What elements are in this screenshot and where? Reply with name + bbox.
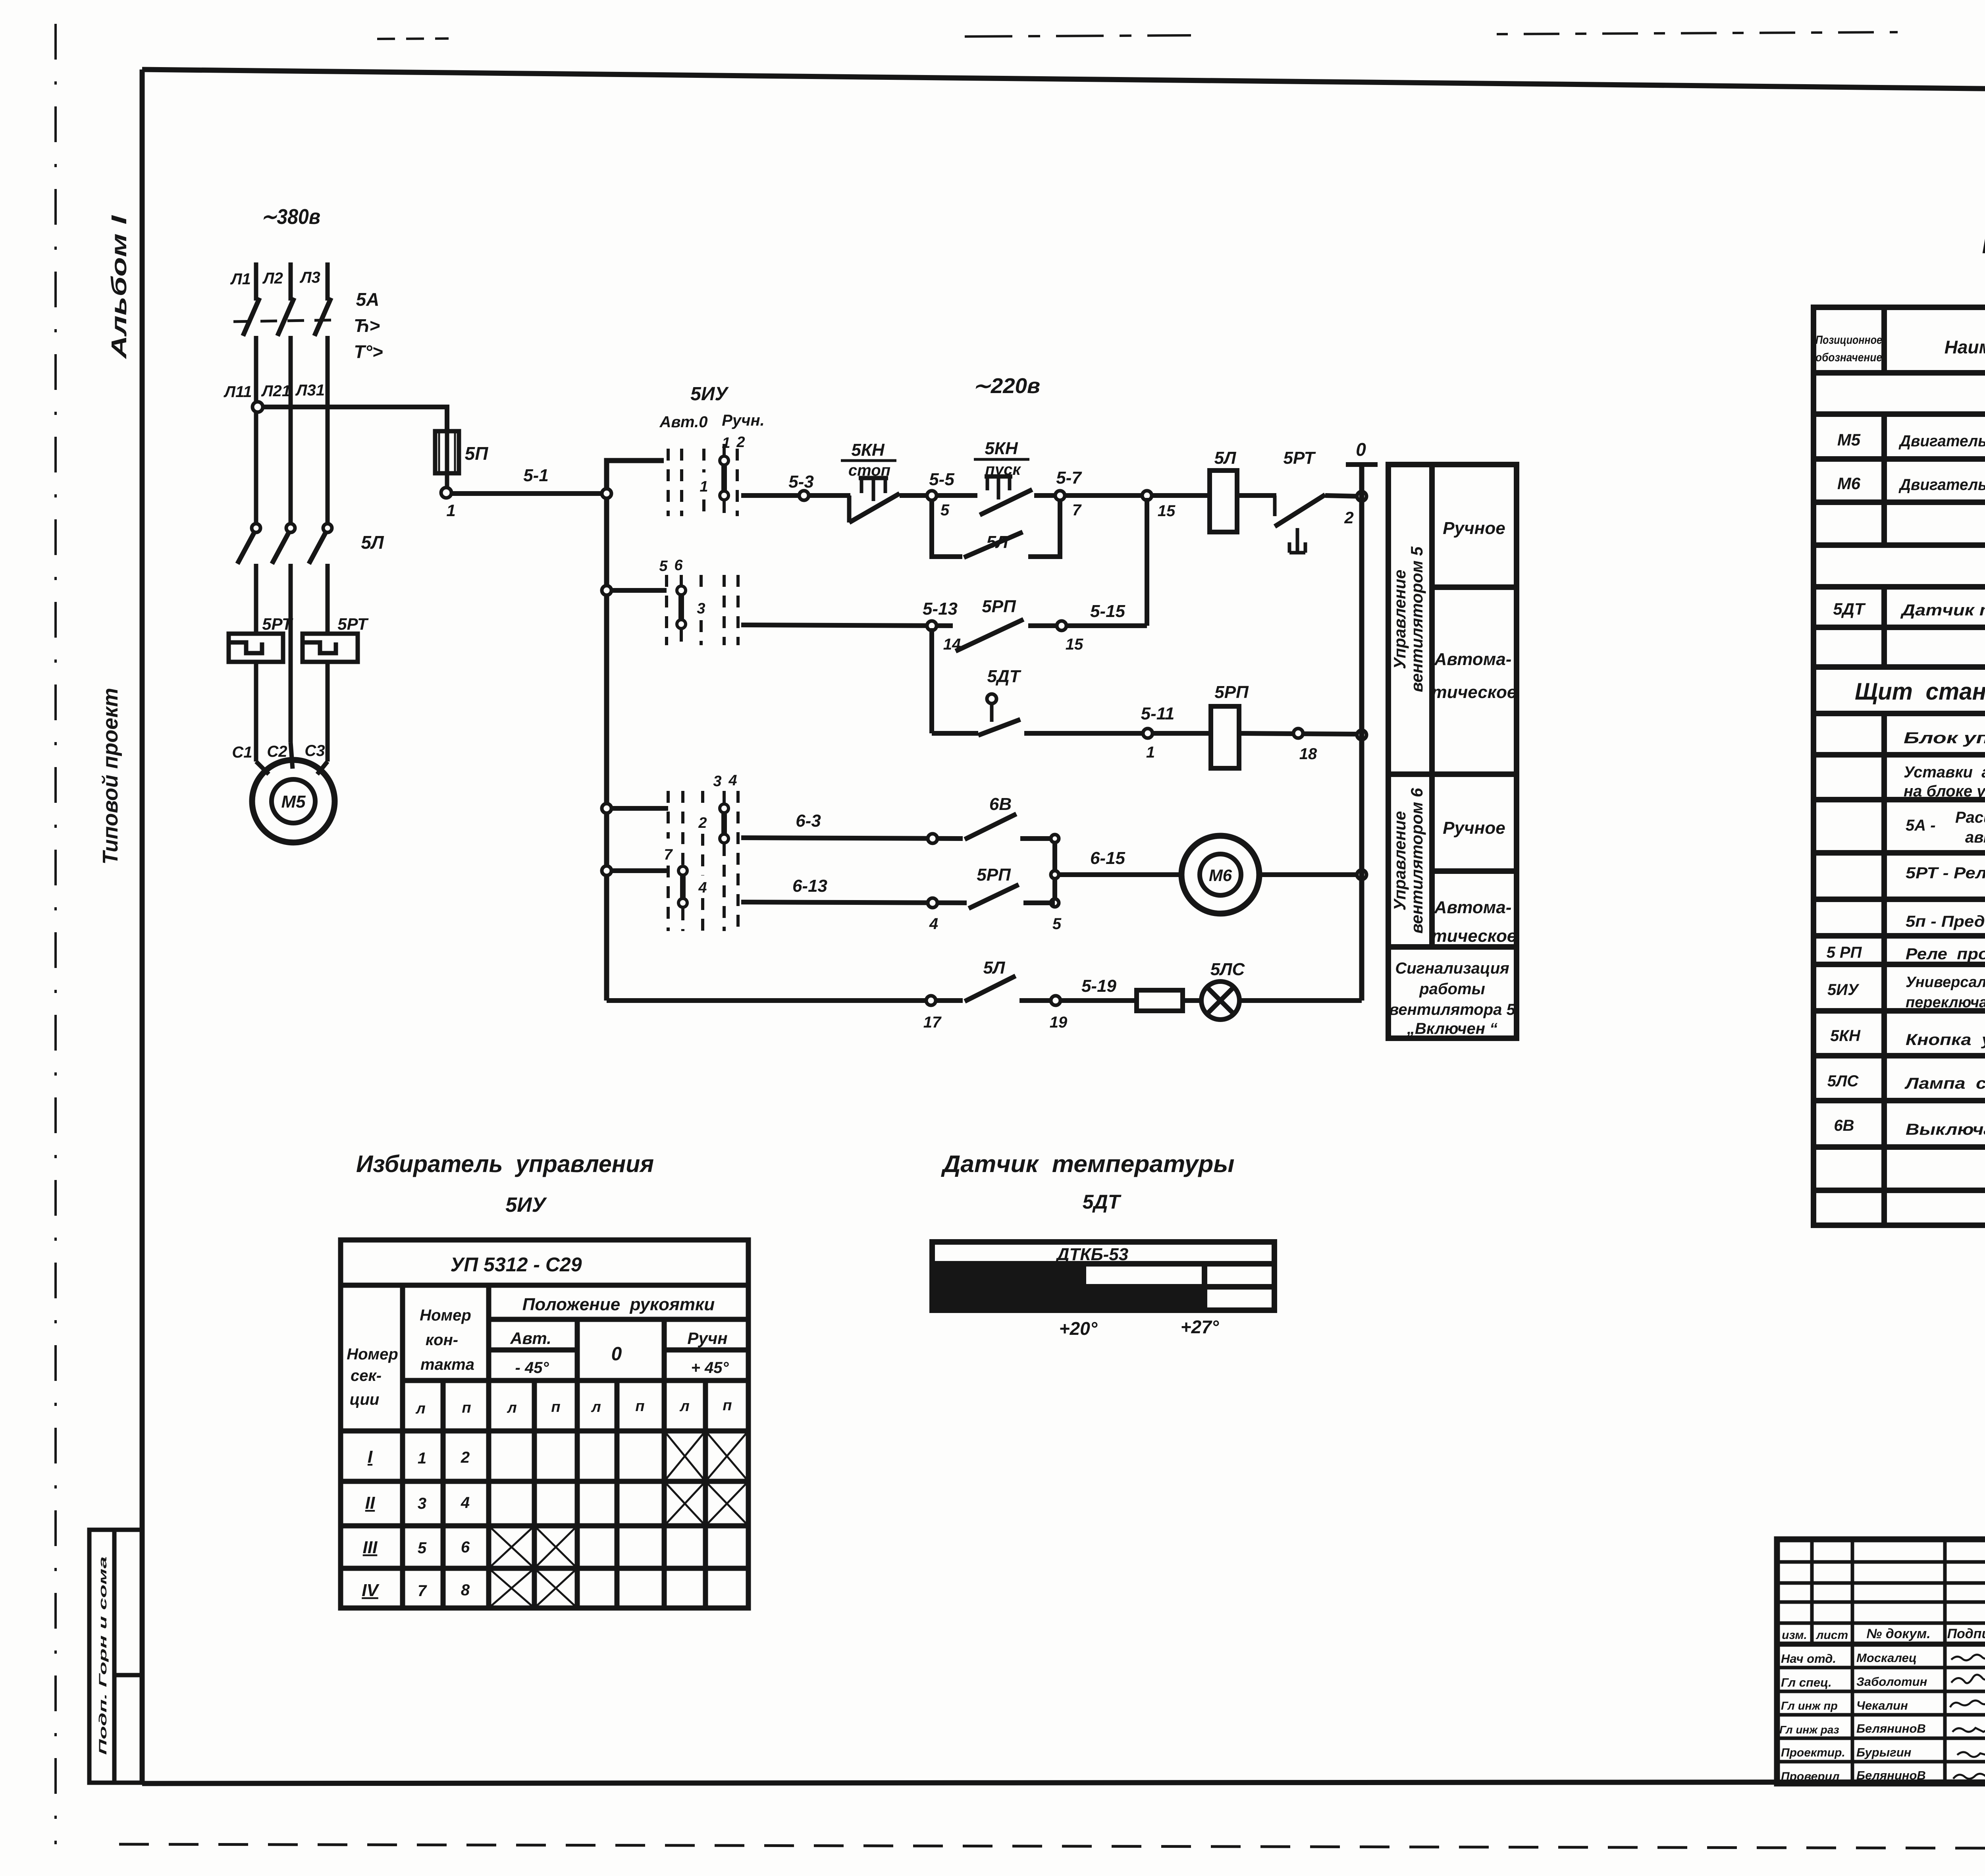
svg-text:Сигнализация: Сигнализация: [1395, 960, 1509, 977]
auxiliary contact 5L (seal-in branch): [932, 500, 1060, 557]
svg-text:5Л: 5Л: [361, 532, 384, 553]
svg-text:6-3: 6-3: [796, 811, 821, 831]
svg-text:обозначение: обозначение: [1815, 351, 1882, 364]
svg-text:Двигатель вентилятора В-1: Двигатель вентилятора В-1: [1898, 432, 1985, 450]
svg-text:Т°>: Т°>: [354, 341, 383, 362]
selector 5IU sections III-IV contacts (rungs 6-3, 6-13): [664, 772, 738, 931]
svg-text:5-3: 5-3: [788, 472, 814, 492]
svg-text:Расцепитель: Расцепитель: [1955, 809, 1985, 826]
thermal relay 5RT NC contact: [1275, 495, 1325, 553]
svg-text:5РТ: 5РТ: [337, 615, 369, 633]
element list table: [1813, 307, 1985, 1225]
node on wire 5-3: [799, 491, 809, 500]
svg-text:5ИУ: 5ИУ: [505, 1193, 547, 1217]
svg-text:Л1: Л1: [230, 270, 251, 288]
phase line L3: [326, 262, 330, 301]
vertical wire node14 down to 5DT rung: [929, 628, 934, 733]
wire lamp to bus corner: [1239, 998, 1362, 1003]
svg-text:Номер: Номер: [347, 1346, 398, 1363]
selector table grid: [341, 1240, 748, 1608]
wire L11 segment: [254, 336, 258, 523]
svg-text:Автома-: Автома-: [1434, 650, 1512, 669]
svg-text:тическое: тическое: [1432, 926, 1517, 946]
svg-text:Л31: Л31: [295, 382, 325, 399]
wire 6-15: [1059, 872, 1181, 877]
svg-text:Ручн.: Ручн.: [722, 412, 765, 429]
svg-text:вентилятором 5: вентилятором 5: [1407, 546, 1426, 692]
svg-text:Датчик температуры: Датчик температуры: [1900, 602, 1985, 619]
sensor black band upper (to +20): [935, 1266, 1086, 1285]
svg-text:сек-: сек-: [351, 1367, 382, 1384]
svg-text:3: 3: [697, 600, 705, 617]
svg-text:Ћ>: Ћ>: [354, 315, 380, 336]
svg-text:6В: 6В: [1834, 1117, 1854, 1134]
pushbutton 5KN pusk (NO): [980, 476, 1032, 515]
sensor black band lower (to +27): [935, 1289, 1204, 1308]
svg-text:Избиратель управления: Избиратель управления: [356, 1151, 654, 1177]
wire to thermostat 5DT: [932, 731, 978, 736]
svg-text:5Л: 5Л: [987, 532, 1008, 552]
svg-text:7: 7: [664, 846, 673, 863]
node 5-5: [927, 491, 937, 500]
svg-text:ДТКБ-53: ДТКБ-53: [1055, 1245, 1128, 1264]
svg-text:7: 7: [1072, 501, 1082, 519]
svg-text:7: 7: [418, 1582, 427, 1600]
wire C1: [254, 662, 258, 762]
svg-text:19: 19: [1050, 1014, 1068, 1031]
wire 6-3: [741, 838, 963, 839]
motor leads: [256, 742, 328, 774]
wire L31 segment: [326, 336, 330, 523]
svg-text:6: 6: [674, 557, 683, 574]
svg-text:5РП: 5РП: [977, 865, 1011, 885]
circuit breaker 5A pole 1: [243, 298, 260, 336]
svg-text:3: 3: [418, 1495, 426, 1512]
node 15 (5-15): [1057, 621, 1066, 630]
svg-text:„Включен “: „Включен “: [1407, 1020, 1497, 1037]
node 15 junction: [1142, 491, 1152, 500]
phase line L2: [289, 262, 293, 301]
svg-text:на блоке управления: на блоке управления: [1904, 783, 1985, 800]
svg-text:Гл спец.: Гл спец.: [1781, 1675, 1832, 1689]
bus stub rung 6-3: [611, 806, 668, 811]
svg-text:Подпись: Подпись: [1947, 1626, 1985, 1641]
inventory stamp box: [89, 1530, 142, 1783]
svg-text:5п - Предохранитель: 5п - Предохранитель: [1906, 913, 1985, 930]
switch 6V (NO): [965, 814, 1016, 839]
svg-text:п: п: [723, 1397, 732, 1414]
signatures (squiggles): [1950, 1654, 1985, 1779]
bottom rung wire from bus: [607, 998, 963, 1003]
svg-text:5РП: 5РП: [1214, 683, 1249, 702]
wire 5-1: [451, 491, 605, 496]
svg-text:Перечень элементов: Перечень элементов: [1982, 226, 1985, 260]
svg-text:переключатель: переключатель: [1906, 994, 1985, 1011]
circuit breaker 5A pole 2: [278, 298, 294, 336]
svg-text:Чекалин: Чекалин: [1856, 1699, 1908, 1712]
svg-text:Лампа сигнальная: Лампа сигнальная: [1904, 1075, 1985, 1092]
svg-text:Уставки аппаратов: Уставки аппаратов: [1904, 764, 1985, 781]
svg-text:∼380в: ∼380в: [261, 205, 320, 229]
svg-text:УП 5312 - С29: УП 5312 - С29: [450, 1253, 582, 1276]
svg-text:Л11: Л11: [223, 383, 252, 401]
svg-text:5-11: 5-11: [1141, 704, 1175, 723]
svg-text:л: л: [507, 1400, 517, 1416]
svg-text:л: л: [415, 1400, 426, 1417]
svg-text:5-7: 5-7: [1056, 468, 1082, 488]
svg-text:5КН: 5КН: [1830, 1027, 1861, 1045]
svg-text:М6: М6: [1209, 866, 1232, 885]
svg-text:лист: лист: [1815, 1629, 1848, 1642]
svg-text:5ИУ: 5ИУ: [690, 384, 729, 405]
wire 5-13: [741, 625, 953, 626]
svg-text:5ЛС: 5ЛС: [1210, 960, 1245, 979]
wire 5-19: [1060, 998, 1137, 1003]
svg-text:2: 2: [736, 434, 745, 451]
svg-text:Кнопка управления: Кнопка управления: [1906, 1031, 1985, 1049]
svg-text:М5: М5: [1837, 430, 1861, 449]
svg-text:1: 1: [446, 501, 455, 520]
node 4: [928, 898, 937, 908]
svg-text:вентилятора 5: вентилятора 5: [1389, 1001, 1515, 1018]
wire to node 5-5: [900, 493, 977, 498]
svg-text:Авт.: Авт.: [510, 1329, 551, 1348]
circuit breaker 5A pole 3: [314, 298, 331, 336]
svg-text:5Л: 5Л: [1214, 448, 1236, 468]
node 5-11: [1143, 729, 1152, 738]
svg-text:М6: М6: [1837, 474, 1861, 493]
svg-text:Наименование: Наименование: [1945, 337, 1985, 357]
svg-text:5А: 5А: [356, 289, 380, 310]
thermostat contact 5DT: [978, 694, 1020, 735]
svg-text:пуск: пуск: [985, 461, 1021, 478]
svg-text:5ЛС: 5ЛС: [1827, 1072, 1859, 1090]
svg-text:Гл инж пр: Гл инж пр: [1781, 1700, 1838, 1712]
svg-text:5КН: 5КН: [985, 439, 1018, 458]
junction on bus 0 (M6): [1357, 870, 1366, 879]
svg-text:Л2: Л2: [262, 270, 283, 287]
svg-text:5-1: 5-1: [523, 466, 549, 485]
svg-text:6-13: 6-13: [792, 876, 827, 896]
svg-text:5РП: 5РП: [982, 597, 1016, 616]
auxiliary contact 5L (signal): [965, 976, 1016, 1001]
thermal relay 5RT heater 2: [303, 634, 358, 662]
svg-text:БеляниноВ: БеляниноВ: [1856, 1768, 1926, 1782]
crosses: section I closed in Ruchn: [664, 1431, 705, 1481]
svg-text:4: 4: [698, 879, 707, 896]
bus junction node rung 6-3: [602, 804, 611, 813]
bus stub rung2: [611, 588, 667, 593]
svg-text:Авт.0: Авт.0: [659, 413, 708, 431]
wire 5-15: [1066, 623, 1147, 628]
breaker trip linkage dashed bar: [233, 320, 335, 322]
svg-text:8: 8: [461, 1581, 470, 1599]
svg-text:2: 2: [1344, 508, 1353, 527]
svg-text:Заболотин: Заболотин: [1856, 1675, 1927, 1689]
function boxes column: [1388, 465, 1517, 1038]
svg-text:стоп: стоп: [848, 462, 890, 479]
contactor coil 5L: [1210, 470, 1237, 532]
svg-text:0: 0: [611, 1344, 622, 1365]
wire coil to node 18: [1239, 733, 1359, 734]
svg-text:4: 4: [728, 772, 737, 789]
svg-text:1: 1: [1146, 744, 1155, 761]
svg-text:5: 5: [1052, 915, 1062, 933]
wire resistor to lamp: [1183, 998, 1201, 1003]
node on wire 6-3: [928, 834, 937, 843]
svg-text:№ докум.: № докум.: [1866, 1626, 1930, 1641]
svg-text:ции: ции: [350, 1391, 380, 1408]
svg-text:С1: С1: [232, 744, 252, 761]
svg-text:изм.: изм.: [1782, 1629, 1807, 1642]
svg-text:л: л: [679, 1398, 690, 1415]
crosses: section III closed in Avt: [489, 1526, 534, 1568]
svg-text:4: 4: [929, 915, 938, 933]
title block grid: [1777, 1539, 1985, 1783]
wire fuse to node 1: [445, 476, 449, 488]
svg-text:Датчик температуры: Датчик температуры: [940, 1151, 1234, 1177]
svg-text:I: I: [368, 1447, 373, 1467]
svg-text:3: 3: [713, 773, 721, 790]
svg-text:- 45°: - 45°: [515, 1359, 549, 1377]
svg-text:Щит станций управления Щ.: Щит станций управления Щ. Шкаф №3: [1855, 678, 1985, 705]
selector 5IU section II contacts (rung 5-13): [659, 557, 738, 645]
svg-text:+27°: +27°: [1181, 1317, 1219, 1337]
svg-text:IV: IV: [362, 1581, 380, 1600]
crosses: section II closed in Ruchn: [664, 1481, 705, 1526]
svg-text:Бурыгин: Бурыгин: [1856, 1745, 1912, 1759]
svg-text:М5: М5: [281, 792, 306, 812]
svg-text:2: 2: [698, 815, 707, 831]
node 5-7: [1055, 491, 1065, 500]
contactor 5L pole 3: [309, 524, 332, 634]
junction node on L11: [252, 402, 263, 412]
bus stub rung 6-13: [611, 868, 668, 873]
ballast resistor: [1137, 990, 1183, 1011]
svg-text:5: 5: [418, 1539, 427, 1557]
motor M6: [1181, 836, 1259, 914]
svg-text:кон-: кон-: [426, 1331, 458, 1349]
svg-text:6-15: 6-15: [1090, 848, 1125, 868]
svg-text:III: III: [363, 1538, 378, 1557]
selector 5IU section I contacts (rung 5-3): [668, 444, 737, 516]
svg-text:л: л: [591, 1399, 601, 1415]
svg-text:5-13: 5-13: [923, 599, 958, 619]
svg-text:С3: С3: [304, 742, 325, 760]
svg-text:18: 18: [1299, 745, 1317, 763]
svg-text:Подп. Горн и сома: Подп. Горн и сома: [97, 1556, 109, 1755]
wire 6-13: [741, 902, 967, 903]
svg-text:Москалец: Москалец: [1856, 1651, 1917, 1665]
svg-text:5П: 5П: [465, 443, 489, 464]
pushbutton 5KN stop (NC): [849, 478, 900, 523]
fuse 5P: [435, 427, 459, 476]
svg-text:5: 5: [940, 501, 950, 519]
svg-text:Реле промежуточное: Реле промежуточное: [1906, 945, 1985, 963]
contactor 5L pole 2: [272, 524, 295, 742]
svg-text:5: 5: [659, 558, 668, 575]
svg-text:0: 0: [1356, 439, 1366, 460]
wire M6 to bus: [1259, 872, 1359, 877]
svg-text:2: 2: [461, 1449, 470, 1466]
svg-text:4: 4: [461, 1494, 470, 1512]
svg-text:+ 45°: + 45°: [691, 1359, 729, 1377]
node 17: [926, 996, 936, 1005]
svg-text:п: п: [551, 1399, 560, 1415]
relay contact 5RP (NO) on rung 5-13: [956, 619, 1023, 651]
node 14: [927, 621, 937, 630]
svg-text:автомата: автомата: [1965, 829, 1985, 846]
svg-text:17: 17: [923, 1014, 942, 1031]
motor M5: [252, 760, 335, 843]
svg-text:Ручн: Ручн: [687, 1329, 727, 1348]
svg-text:5А -: 5А -: [1906, 817, 1936, 834]
svg-text:Блок управления: Блок управления: [1904, 729, 1985, 747]
wire L21 segment: [289, 336, 293, 523]
wire 5RT to bus 0: [1325, 496, 1359, 496]
svg-text:6: 6: [461, 1539, 470, 1556]
svg-text:5ИУ: 5ИУ: [1827, 981, 1860, 999]
temperature sensor DTKB-53 diagram: [932, 1242, 1274, 1310]
svg-text:5Л: 5Л: [983, 958, 1005, 978]
node 1: [441, 488, 451, 498]
svg-text:5-19: 5-19: [1081, 976, 1117, 996]
bus junction node rung2: [602, 586, 611, 595]
junction on bus 0: [1357, 730, 1366, 740]
svg-text:Универсальный: Универсальный: [1906, 974, 1985, 991]
thermal relay 5RT heater 1: [229, 634, 283, 662]
svg-text:Автома-: Автома-: [1434, 898, 1512, 917]
node 19: [1051, 996, 1060, 1005]
contactor 5L pole 1: [237, 524, 260, 634]
svg-text:тическое: тическое: [1432, 683, 1517, 702]
svg-text:Ручное: Ручное: [1443, 818, 1505, 838]
junction column x=2657: [1052, 839, 1057, 903]
svg-text:15: 15: [1066, 636, 1083, 653]
svg-text:Ручное: Ручное: [1443, 519, 1505, 538]
svg-text:Управление: Управление: [1390, 570, 1409, 669]
svg-text:п: п: [635, 1398, 644, 1415]
svg-text:Гл инж раз: Гл инж раз: [1779, 1724, 1839, 1736]
svg-text:+20°: +20°: [1059, 1318, 1098, 1339]
svg-text:Управление: Управление: [1390, 811, 1409, 911]
svg-text:5ДТ: 5ДТ: [1833, 600, 1866, 618]
svg-text:Нач отд.: Нач отд.: [1781, 1652, 1836, 1666]
svg-text:С2: С2: [267, 743, 287, 760]
node 2 junction on bus: [1357, 492, 1366, 501]
svg-text:Двигатель вентилятора В-2: Двигатель вентилятора В-2: [1898, 476, 1985, 494]
svg-text:Альбом I: Альбом I: [107, 215, 131, 360]
svg-text:6В: 6В: [989, 794, 1012, 814]
relay contact 5RP (NO) on rung 6-13: [969, 885, 1019, 908]
svg-text:1: 1: [700, 478, 708, 495]
signal lamp 5LS: [1201, 981, 1239, 1020]
svg-text:Л21: Л21: [261, 382, 291, 400]
wire 5-3: [741, 493, 850, 498]
svg-text:п: п: [462, 1400, 471, 1416]
svg-text:5РТ: 5РТ: [262, 615, 293, 633]
svg-text:∼220в: ∼220в: [973, 374, 1040, 398]
svg-text:II: II: [365, 1493, 375, 1513]
control bus left: [607, 461, 664, 1001]
svg-text:5РТ: 5РТ: [1283, 448, 1316, 468]
svg-text:Л3: Л3: [299, 269, 320, 286]
relay coil 5RP: [1211, 706, 1239, 768]
svg-text:Позиционное: Позиционное: [1815, 334, 1882, 347]
svg-text:5 РП: 5 РП: [1827, 944, 1862, 961]
svg-text:работы: работы: [1419, 980, 1485, 998]
svg-text:5КН: 5КН: [851, 440, 885, 460]
svg-text:1: 1: [418, 1450, 426, 1467]
svg-text:5-15: 5-15: [1090, 602, 1125, 621]
svg-text:Проектир.: Проектир.: [1781, 1746, 1845, 1759]
crosses: section IV closed in Avt: [489, 1568, 534, 1608]
bus 0: [1346, 465, 1378, 1001]
bus junction node rung 6-13: [602, 866, 611, 875]
phase line L1: [254, 262, 258, 301]
svg-text:5РТ - Реле тепловое: 5РТ - Реле тепловое: [1906, 864, 1985, 882]
wire C3: [326, 662, 330, 762]
svg-text:5ДТ: 5ДТ: [1083, 1191, 1122, 1213]
svg-text:Типовой проект: Типовой проект: [98, 688, 122, 865]
svg-text:5ДТ: 5ДТ: [987, 667, 1021, 686]
svg-text:Проверил: Проверил: [1781, 1770, 1840, 1783]
bus junction node 5-1: [602, 489, 611, 498]
svg-text:Положение рукоятки: Положение рукоятки: [522, 1295, 715, 1314]
svg-text:5-5: 5-5: [929, 470, 954, 489]
wire 5-11: [1024, 731, 1211, 736]
wire to node 5-7: [1034, 493, 1151, 498]
svg-text:Выключатель: Выключатель: [1906, 1121, 1985, 1138]
wire coil to 5RT contact: [1237, 493, 1276, 498]
svg-text:БеляниноВ: БеляниноВ: [1856, 1722, 1926, 1735]
svg-text:вентилятором 6: вентилятором 6: [1407, 788, 1426, 933]
svg-text:такта: такта: [420, 1356, 474, 1373]
vertical wire node15 to main rung: [1145, 498, 1149, 626]
wire to coil 5L: [1151, 493, 1210, 498]
svg-text:Номер: Номер: [420, 1307, 471, 1324]
svg-text:15: 15: [1158, 502, 1176, 520]
wire from L11 to fuse: [263, 407, 447, 430]
node 18: [1293, 729, 1303, 738]
